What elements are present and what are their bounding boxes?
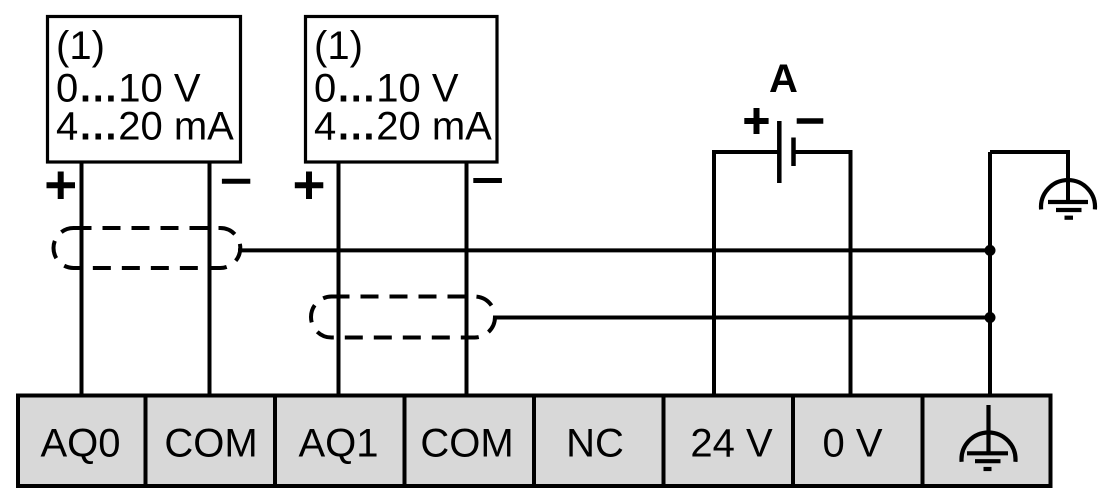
svg-text:NC: NC [566,422,624,466]
value label box 2: (1) 0...10 V / 4...20 mA [314,24,492,149]
wire AQ0 COM (box 1 right pin to terminal COM) [208,161,212,397]
svg-text:4…20 mA: 4…20 mA [56,105,234,149]
wire shield 2 to ground bus [493,316,990,320]
wire ground bus to earth ground [990,152,1068,202]
battery minus label [797,118,824,124]
svg-text:AQ0: AQ0 [40,422,120,466]
wire battery + to terminal 24 V [714,152,779,397]
svg-text:COM: COM [420,422,513,466]
minus polarity label (box 2) [473,178,502,183]
junction dot 2 (shield 2 to ground bus) [985,312,996,323]
wire AQ1 + (box 2 left pin to terminal AQ1) [337,161,341,397]
wire shield 1 to ground bus [238,248,990,252]
svg-text:24 V: 24 V [690,422,773,466]
cable shield 1 (dashed stadium around AQ0 pair) [54,228,241,268]
svg-text:(1): (1) [314,24,363,68]
minus polarity label (box 1) [222,179,250,184]
earth ground symbol (top right) [1041,180,1095,218]
plus polarity label (box 1) [47,172,76,200]
terminal block body [18,396,1051,487]
svg-text:A: A [769,57,798,101]
battery symbol (power supply A): long positive plate [777,121,782,183]
svg-text:4…20 mA: 4…20 mA [314,105,492,149]
ground bus vertical wire [988,152,992,397]
svg-text:(1): (1) [56,24,105,68]
wire AQ0 + (box 1 left pin to terminal AQ0) [80,161,84,397]
protective earth terminal symbol (cell 8) [962,405,1016,469]
value label box 1: (1) 0...10 V / 4...20 mA [56,24,234,149]
svg-text:COM: COM [164,422,257,466]
junction dot 1 (shield 1 to ground bus) [985,245,996,256]
cable shield 2 (dashed stadium around AQ1 pair) [311,297,495,338]
device box 1 (analog actuator on AQ0) [48,17,241,163]
plus polarity label (box 2) [295,172,324,200]
wire AQ1 COM (box 2 right pin to terminal COM) [465,161,469,397]
battery symbol: short negative plate [791,138,796,167]
terminal dividers [146,396,923,487]
svg-text:AQ1: AQ1 [298,422,378,466]
wire battery - to terminal 0 V [794,152,851,397]
battery plus label [744,108,768,134]
svg-text:0 V: 0 V [822,422,882,466]
device box 2 (analog actuator on AQ1) [306,17,498,163]
